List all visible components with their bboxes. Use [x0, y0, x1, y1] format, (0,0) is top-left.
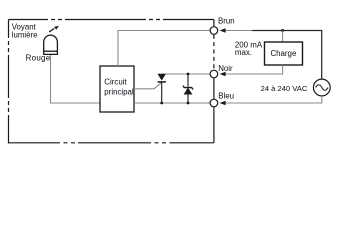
load box Charge	[265, 42, 303, 65]
svg-text:max.: max.	[235, 48, 252, 57]
svg-text:Noir: Noir	[218, 64, 233, 73]
zener diode D1	[183, 74, 193, 103]
junction dot zener top rail	[187, 73, 190, 76]
sensor enclosure border: segment Noir to Bleu	[213, 78, 215, 99]
svg-text:lumière: lumière	[12, 30, 38, 39]
wire: load node to AC source top	[252, 31, 322, 80]
terminal Bleu	[210, 99, 218, 107]
svg-text:Rouge: Rouge	[26, 54, 51, 63]
wire: charge bottom to Noir	[225, 65, 283, 74]
svg-text:Charge: Charge	[270, 49, 296, 58]
svg-text:24 à 240 VAC: 24 à 240 VAC	[261, 84, 308, 93]
arrowhead into Bleu	[220, 101, 226, 106]
wire: AC source bottom to Bleu	[225, 96, 322, 103]
wire: lamp to circuit box	[51, 55, 101, 103]
wire: top rail SCR/zener to Noir terminal	[162, 73, 210, 75]
circuit box U1	[100, 66, 134, 112]
sensor enclosure chain border: bottom edge	[9, 142, 214, 144]
sensor enclosure border: dashed segment Brun to Noir	[213, 35, 215, 70]
svg-text:Bleu: Bleu	[218, 91, 234, 100]
svg-text:principal: principal	[104, 88, 134, 97]
svg-text:Brun: Brun	[218, 16, 235, 25]
terminal Noir	[210, 70, 218, 78]
sensor enclosure border: right edge top segment to Brun terminal	[213, 20, 215, 27]
SCR Q1	[158, 74, 166, 103]
junction dot zener bottom rail	[187, 102, 190, 105]
wire: stub to charge top	[282, 31, 284, 43]
indicator lamp (dome)	[44, 35, 58, 54]
terminal Brun	[210, 27, 218, 35]
sensor enclosure chain border: top edge	[9, 19, 214, 21]
AC sine wave	[316, 85, 328, 91]
wire: bottom rail circuit box to Bleu terminal	[134, 102, 210, 104]
junction dot charge stub	[281, 29, 284, 32]
arrowhead into Brun	[220, 28, 226, 33]
sensor enclosure chain border: left edge	[8, 20, 10, 144]
lamp illumination arrow	[49, 26, 59, 32]
wire: Brun toward load node	[225, 30, 252, 32]
junction dot SCR cathode / bottom rail	[160, 102, 163, 105]
sensor enclosure border: segment Bleu to bottom corner	[213, 107, 215, 143]
arrowhead into Noir	[220, 72, 226, 77]
svg-text:Circuit: Circuit	[104, 77, 127, 86]
wire: circuit box top to Brun terminal	[118, 31, 210, 67]
AC source V1	[313, 79, 330, 96]
wire: gate from circuit box to SCR	[134, 83, 161, 89]
